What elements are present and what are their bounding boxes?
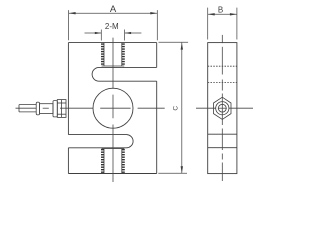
dimension 2-M	[85, 30, 142, 41]
top hole thread hatch left	[101, 43, 104, 65]
svg-text:C: C	[173, 106, 180, 111]
upper slot	[92, 67, 157, 81]
lower slot	[68, 135, 133, 148]
top threaded hole	[102, 43, 125, 66]
side view connector hex nut	[214, 97, 232, 119]
gland nut	[57, 100, 66, 118]
svg-text:2-M: 2-M	[105, 22, 119, 31]
side view connector outer circle	[216, 102, 229, 115]
side view body outline	[208, 43, 237, 174]
side view hidden line upper slot bottom	[208, 82, 237, 84]
side view horizontal center line	[196, 107, 253, 109]
svg-text:A: A	[110, 4, 117, 15]
dimension C	[158, 42, 188, 173]
front view body outline	[68, 43, 156, 174]
side view hidden line upper slot top	[208, 65, 237, 67]
top hole thread hatch right	[122, 43, 125, 65]
center circle	[93, 88, 133, 128]
bottom hole thread hatch right	[122, 149, 125, 173]
dimension B	[208, 8, 237, 40]
vertical center line front view	[112, 38, 114, 182]
side view lower slot top line	[208, 133, 237, 135]
side view connector inner circle	[218, 104, 226, 112]
connector ferrule	[36, 102, 39, 115]
horizontal center line front view	[16, 107, 165, 109]
svg-text:B: B	[218, 6, 223, 15]
bottom threaded hole	[102, 149, 125, 174]
side view lower slot bottom line	[208, 147, 237, 149]
side view vertical center line	[221, 35, 223, 181]
dimension A	[69, 10, 158, 40]
connector flange	[53, 101, 57, 117]
cable	[19, 105, 36, 112]
bottom hole thread hatch left	[101, 149, 104, 173]
connector barrel	[40, 104, 53, 114]
